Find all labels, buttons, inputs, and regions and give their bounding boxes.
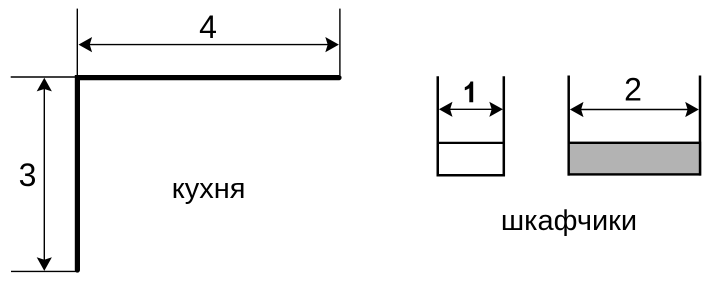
svg-text:4: 4 [199,9,217,45]
dimension line "4" [80,44,337,46]
extension line vertical right [339,9,341,76]
extension line vertical left [76,9,78,75]
svg-text:кухня: кухня [172,173,246,205]
svg-text:2: 2 [624,72,642,108]
extension line horizontal top-left [11,76,75,78]
cabinet 2 [567,76,570,176]
svg-text:3: 3 [19,157,37,193]
extension line horizontal bottom [11,270,78,272]
dimension line "2" [572,109,697,111]
dimension line "3" [43,80,45,269]
kitchen walls (thick L) [77,78,339,270]
dimension line "1" [441,108,501,110]
svg-text:шкафчики: шкафчики [501,205,637,237]
cabinet 1 [437,76,440,176]
label 1 (Arial-style, no foot serif) [465,82,473,103]
